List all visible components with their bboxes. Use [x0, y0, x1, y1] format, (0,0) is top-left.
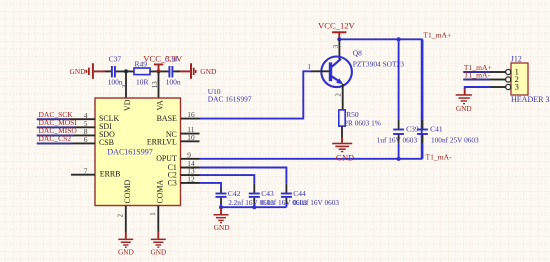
wire VCC_12V / T1_mA+ top rail	[339, 39, 421, 159]
svg-text:VCC_3.3V: VCC_3.3V	[143, 53, 183, 63]
svg-text:10: 10	[187, 133, 195, 142]
svg-text:GND: GND	[214, 223, 230, 232]
svg-text:PZT3904 SOT23: PZT3904 SOT23	[353, 59, 404, 68]
svg-text:100n: 100n	[166, 77, 181, 86]
pin 4 line	[71, 118, 95, 120]
svg-text:COMD: COMD	[123, 180, 132, 204]
svg-text:C44: C44	[293, 189, 306, 198]
pin 14 line	[181, 167, 200, 169]
ground GND at J12	[456, 94, 472, 113]
transistor Q8	[321, 57, 352, 88]
resistor R49	[134, 60, 150, 87]
pin 13 line	[181, 174, 200, 176]
wire T1_mA- to J12-2	[463, 79, 490, 81]
op-amp U10 DAC161S997 body	[95, 98, 181, 206]
svg-text:GND: GND	[70, 67, 87, 76]
power VCC_12V	[318, 21, 356, 40]
transistor Q8 emitter lead	[342, 84, 344, 111]
junction caps bottom at C42	[219, 205, 223, 209]
wire caps common bottom	[221, 206, 286, 208]
svg-text:VCC_12V: VCC_12V	[318, 21, 356, 31]
svg-text:C42: C42	[228, 189, 241, 198]
svg-text:0.1nf 16V 0603: 0.1nf 16V 0603	[293, 198, 339, 207]
wire C44 bottom stub	[285, 198, 287, 204]
wire C37 to R49	[116, 70, 134, 72]
svg-text:3: 3	[333, 44, 340, 48]
svg-text:7: 7	[84, 166, 88, 175]
capacitor C38	[165, 54, 181, 86]
junction top rail at collector	[337, 37, 341, 41]
ground GND below R50	[332, 137, 354, 162]
wire DAC_CS2	[37, 142, 71, 144]
svg-text:CSB: CSB	[99, 138, 114, 147]
svg-text:T1_mA-: T1_mA-	[464, 71, 491, 80]
svg-text:DAC 161S997: DAC 161S997	[208, 95, 252, 104]
wire VA pin drop	[158, 71, 160, 98]
svg-text:C43: C43	[261, 189, 274, 198]
transistor Q2 collector lead	[338, 39, 340, 61]
svg-text:12: 12	[187, 175, 195, 184]
wire R50 to ground	[341, 126, 343, 138]
wire C3 pin12 to C42	[200, 183, 222, 189]
junction top rail at C39	[397, 37, 401, 41]
svg-text:OPUT: OPUT	[156, 154, 177, 163]
svg-text:1: 1	[308, 64, 311, 71]
svg-text:DAC_CS2: DAC_CS2	[39, 134, 72, 143]
svg-text:GND: GND	[200, 67, 217, 76]
svg-text:6: 6	[84, 135, 88, 144]
pin 11 line	[181, 133, 200, 135]
junction caps bottom at C43	[252, 205, 256, 209]
junction on T1_mA- at C39	[397, 157, 401, 161]
pin circle J12-1	[506, 69, 511, 74]
wire VD pin drop	[125, 71, 127, 98]
capacitor C44	[281, 189, 340, 207]
transistor Q8 base lead	[312, 70, 330, 72]
svg-text:ERRLVL: ERRLVL	[147, 137, 177, 146]
svg-text:C3: C3	[168, 178, 177, 187]
wire T1_mA+ to J12-1	[463, 71, 490, 73]
pin circle J12-2	[506, 77, 511, 82]
pin 1 line (COMA)	[157, 206, 159, 233]
pin J12-1 lead	[491, 71, 506, 73]
junction at VD column	[124, 69, 128, 73]
svg-text:100n: 100n	[108, 77, 123, 86]
svg-text:3: 3	[515, 82, 519, 92]
pin 9 line	[181, 158, 200, 160]
svg-text:3: 3	[122, 84, 129, 88]
ground GND right of C38	[180, 63, 217, 79]
wire BASE net pin16 to transistor base	[200, 71, 313, 118]
svg-text:C41: C41	[430, 125, 443, 134]
svg-text:VD: VD	[123, 99, 132, 111]
pin J12-2 lead	[491, 79, 506, 81]
connector J12	[511, 55, 550, 104]
resistor R50	[339, 110, 381, 128]
pin circle J12-3	[506, 84, 511, 89]
pin 12 line	[181, 182, 200, 184]
svg-text:ERRB: ERRB	[100, 170, 121, 179]
ground GND below C42	[214, 207, 230, 232]
svg-text:R50: R50	[346, 110, 359, 119]
wire DAC_MOSI	[37, 126, 71, 128]
capacitor C41	[417, 39, 479, 159]
svg-text:Q8: Q8	[353, 48, 362, 57]
svg-text:DAC161S997: DAC161S997	[107, 148, 152, 157]
svg-text:J12: J12	[511, 55, 522, 64]
svg-text:C39: C39	[406, 125, 419, 134]
capacitor C37	[108, 54, 123, 86]
wire C2 pin13 to C43	[200, 175, 255, 184]
wire top rail left	[105, 70, 111, 72]
wire R49 to C38	[150, 70, 169, 72]
ground GND below COMD	[118, 231, 134, 256]
svg-text:9: 9	[187, 150, 191, 159]
svg-text:1uf 16V 0603: 1uf 16V 0603	[377, 135, 418, 144]
wire DAC_SCK	[37, 118, 71, 120]
pin 8 line	[71, 134, 95, 136]
pin J12-3 lead	[491, 86, 506, 88]
wire C38 to right GND	[173, 70, 180, 72]
pin 2 line (COMD)	[125, 206, 127, 233]
svg-text:10R: 10R	[136, 77, 149, 86]
svg-text:GND: GND	[336, 153, 354, 162]
wire GND to J12-3	[465, 87, 491, 89]
pin 10 line	[181, 140, 200, 142]
svg-text:GND: GND	[118, 247, 134, 256]
capacitor C39	[377, 39, 419, 159]
svg-text:1: 1	[150, 212, 157, 215]
svg-text:HEADER 3: HEADER 3	[511, 95, 549, 104]
svg-text:2: 2	[118, 213, 125, 217]
svg-text:2R 0603 1%: 2R 0603 1%	[344, 119, 380, 128]
pin 7 line	[71, 174, 95, 176]
svg-text:COMA: COMA	[155, 180, 164, 204]
wire C1 pin14 to C44	[200, 168, 287, 184]
svg-text:16: 16	[187, 110, 195, 119]
wire C42 bottom stub	[220, 198, 222, 204]
wire DAC_MISO	[37, 134, 71, 136]
pin 5 line	[71, 126, 95, 128]
capacitor C42	[216, 189, 275, 207]
svg-text:BASE: BASE	[157, 114, 177, 123]
svg-text:GND: GND	[456, 104, 472, 113]
svg-text:2: 2	[336, 93, 343, 97]
svg-text:13: 13	[152, 81, 159, 88]
pin 6 line	[71, 142, 95, 144]
svg-text:C37: C37	[109, 54, 122, 63]
capacitor C43	[249, 189, 307, 207]
ground GND left of C37	[70, 63, 106, 79]
svg-text:T1_mA-: T1_mA-	[426, 153, 453, 162]
ground GND below COMA	[150, 231, 166, 256]
wire OPUT / T1_mA- rail	[200, 158, 423, 160]
svg-text:T1_mA+: T1_mA+	[423, 30, 451, 39]
power VCC_3.3V	[154, 64, 163, 74]
pin 16 line	[181, 118, 200, 120]
svg-text:VA: VA	[155, 100, 164, 111]
wire C43 bottom stub	[253, 198, 255, 204]
svg-text:GND: GND	[150, 247, 166, 256]
svg-text:100nf 25V 0603: 100nf 25V 0603	[431, 135, 479, 144]
